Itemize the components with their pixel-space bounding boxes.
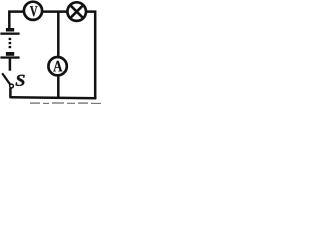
wire ammeter branch (vertical from top junction to bottom wire) <box>57 12 60 98</box>
battery cell 2 short thick plate <box>6 52 14 56</box>
switch label S <box>16 75 25 86</box>
ammeter A <box>48 57 66 75</box>
switch S blade <box>2 73 10 84</box>
battery cell 1 long plate <box>0 33 19 35</box>
wire bottom <box>10 97 96 98</box>
battery dashed continuation dots <box>9 38 12 48</box>
wire top + right side <box>9 12 96 99</box>
switch pivot contact circle <box>10 84 14 88</box>
wire battery bottom stub <box>9 59 12 71</box>
voltmeter V <box>24 2 42 20</box>
wire battery top stub <box>8 10 11 28</box>
wire switch to bottom <box>9 88 12 98</box>
lamp <box>67 2 86 21</box>
battery cell 2 long plate <box>0 56 19 58</box>
scan artifact specks at bottom edge <box>30 102 101 104</box>
battery cell 1 short thick plate <box>6 28 14 32</box>
